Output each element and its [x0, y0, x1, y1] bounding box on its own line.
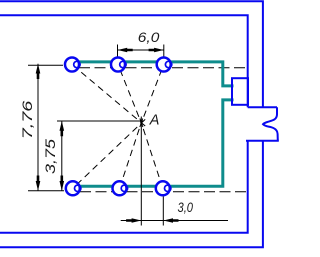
- dimension 6,0 arrows: [118, 48, 133, 53]
- node A vertical extension down to 3,0 dimension: [140, 117, 142, 226]
- node A rays: dashed line A to lamp L1: [72, 65, 145, 127]
- dimension 3,0 arrows (outside): [126, 218, 141, 223]
- dimension 3,75 arrows: [60, 121, 65, 136]
- door opening top edge: [248, 106, 277, 108]
- wire: teal branch lamps row 1 to switch: [77, 62, 234, 86]
- door opening bottom edge: [246, 140, 279, 142]
- wall outer contour: [0, 1, 263, 247]
- node A rays: dashed line A to lamp L2: [118, 65, 143, 128]
- dimension 3,75 line: [61, 121, 63, 191]
- lamp L3: [157, 58, 172, 72]
- svg-text:3,0: 3,0: [178, 199, 194, 215]
- svg-text:A: A: [149, 112, 160, 128]
- switch S1 on wall: [232, 78, 248, 105]
- lamp L5: [113, 181, 128, 195]
- dimension extension line bottom (7,76 / 3,75): [28, 190, 64, 192]
- wall inner contour: [0, 15, 248, 233]
- svg-text:3,75: 3,75: [42, 139, 58, 174]
- dimension 7,76 line: [37, 64, 39, 191]
- lamp L6 extension down to 3,0 dimension: [162, 197, 164, 226]
- svg-text:7,76: 7,76: [19, 101, 35, 140]
- node A rays: dashed line A to lamp L5: [120, 119, 143, 189]
- lamp L4: [66, 181, 81, 195]
- node A rays: dashed line A to lamp L6: [140, 119, 163, 189]
- lamp L6: [156, 181, 171, 195]
- dimension 6,0 line: [118, 49, 164, 51]
- node A rays: dashed line A to lamp L4: [73, 119, 145, 188]
- dimension 3,0 line: [121, 220, 228, 222]
- lamp L1: [65, 58, 80, 72]
- lamp L2: [111, 58, 126, 72]
- wire: dashed centerline bottom lamp row to wall: [80, 191, 248, 193]
- dimension 7,76 arrows: [36, 64, 41, 79]
- svg-text:6,0: 6,0: [138, 29, 160, 45]
- door opening break squiggle: [263, 107, 278, 140]
- wire: teal branch switch to lamps row 2: [77, 100, 234, 186]
- dimension 3,75 extension line at A level: [57, 120, 144, 122]
- wire: dashed centerline top lamp row to switch wall: [79, 67, 248, 69]
- dimension 6,0 extension ticks: [117, 45, 119, 58]
- node A rays: dashed line A to lamp L3: [140, 65, 164, 128]
- dimension 7,76 extension line top: [28, 64, 63, 66]
